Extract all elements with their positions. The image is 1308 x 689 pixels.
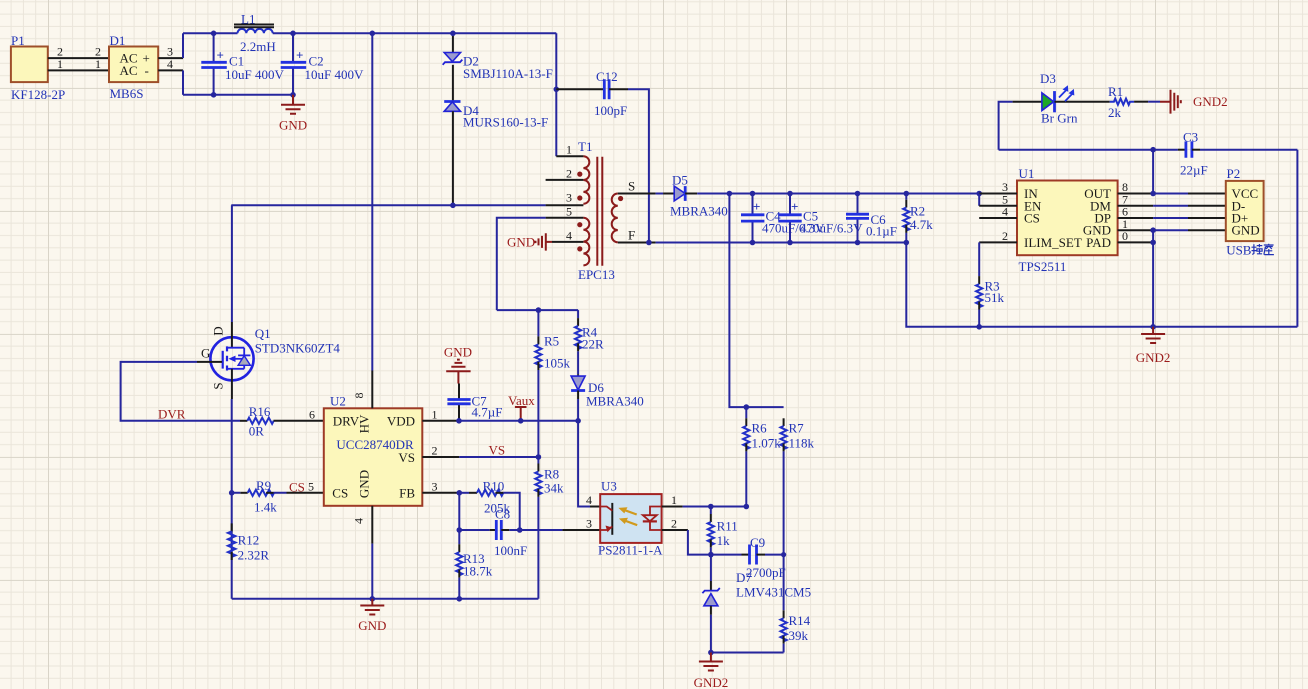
svg-text:U3: U3 [601, 479, 617, 494]
node R2 bottom [904, 240, 910, 246]
node C2 top [290, 31, 296, 37]
U2 pin8 HV [371, 371, 373, 409]
junction dot D4 bottom [450, 203, 456, 209]
svg-text:34k: 34k [544, 481, 564, 496]
IC U2 UCC28740DR [324, 393, 423, 505]
power ground GND above C7 (inverted) [444, 345, 472, 384]
resistor R10 [459, 479, 519, 531]
junction dot VS divider [536, 454, 542, 460]
svg-text:CS: CS [289, 480, 305, 495]
node OUT riser [1150, 191, 1156, 197]
svg-text:1: 1 [566, 143, 572, 157]
resistor R12 [228, 523, 269, 562]
svg-text:R8: R8 [544, 467, 559, 482]
T1 pin1 wire [556, 155, 583, 157]
svg-text:Q1: Q1 [255, 326, 271, 341]
svg-text:C9: C9 [750, 535, 765, 550]
svg-text:GND: GND [507, 235, 535, 250]
svg-text:U1: U1 [1019, 166, 1035, 181]
svg-text:2700pF: 2700pF [746, 565, 786, 580]
svg-text:C3: C3 [1183, 130, 1198, 145]
svg-text:T1: T1 [578, 139, 592, 154]
ground GND2 below rail [1136, 327, 1171, 365]
wire top rail [183, 32, 238, 34]
T1 pin2 wire (nc) [546, 179, 584, 181]
node C6 top [855, 191, 861, 197]
wire Q1 source down [231, 399, 233, 599]
T1 polarity dots [577, 172, 582, 177]
svg-text:0R: 0R [249, 424, 265, 439]
svg-text:+: + [217, 48, 224, 63]
node GND2 rail [1150, 324, 1156, 330]
svg-text:GND2: GND2 [1193, 94, 1228, 109]
diode D4 [444, 65, 548, 206]
node R2 top [904, 191, 910, 197]
svg-text:VS: VS [489, 443, 506, 458]
svg-text:MURS160-13-F: MURS160-13-F [463, 115, 548, 130]
junction dot VDD/D6 [575, 418, 581, 424]
svg-text:G: G [201, 346, 210, 361]
U2 pin1 VDD wire [422, 420, 459, 422]
T1 primary winding upper [583, 156, 589, 204]
svg-text:S: S [211, 382, 226, 389]
node C8/R10 right [517, 527, 523, 533]
node GND pin [1150, 227, 1156, 233]
U1 pin3 IN [979, 193, 1017, 195]
resistor R4 [575, 310, 604, 374]
right loop vertical [1296, 150, 1298, 327]
svg-text:D1: D1 [110, 33, 126, 48]
wire bottom ground rail [232, 598, 539, 600]
USB socket P2 [1226, 166, 1274, 258]
svg-text:R10: R10 [483, 479, 505, 494]
svg-text:4: 4 [1002, 205, 1008, 219]
resistor R16 [240, 404, 324, 439]
node U1 IN/EN [976, 191, 982, 197]
svg-text:+: + [791, 199, 798, 214]
node C4 bottom [750, 240, 756, 246]
U1 right pins [1118, 194, 1154, 243]
aux winding wire [497, 309, 578, 311]
svg-text:CS: CS [1024, 211, 1040, 226]
svg-text:1: 1 [57, 57, 63, 71]
svg-text:4.7µF: 4.7µF [472, 405, 503, 420]
svg-text:2: 2 [566, 166, 572, 180]
svg-text:L1: L1 [241, 12, 255, 27]
wire riser to top rail [182, 33, 184, 58]
svg-text:2: 2 [671, 517, 677, 531]
resistor R6 [743, 407, 781, 506]
wire top rail corner down to T1 pin1 [555, 33, 557, 156]
node C6 bottom [855, 240, 861, 246]
svg-text:22µF: 22µF [1180, 163, 1208, 178]
wire top rail after L1 [273, 32, 557, 34]
U2 pin4 GND [371, 506, 373, 544]
svg-text:D3: D3 [1040, 71, 1056, 86]
svg-text:R5: R5 [544, 334, 559, 349]
svg-text:+: + [296, 48, 303, 63]
resistor R9 [232, 478, 324, 515]
resistor R7 [781, 418, 815, 610]
svg-text:22R: 22R [582, 337, 604, 352]
T1 primary winding lower [583, 218, 589, 266]
svg-text:470uF/6.3V: 470uF/6.3V [800, 221, 863, 236]
wire U1 to P2 data/power lines [1153, 194, 1188, 231]
junction dot D2 top [450, 31, 456, 37]
node PAD pin [1150, 240, 1156, 246]
node C12 return [646, 240, 652, 246]
node C1 bottom [211, 92, 217, 98]
svg-text:MB6S: MB6S [110, 86, 144, 101]
svg-text:GND: GND [1232, 223, 1260, 238]
capacitor C5 [778, 194, 863, 243]
svg-text:PAD: PAD [1086, 235, 1111, 250]
svg-text:3: 3 [566, 190, 572, 204]
svg-text:S: S [628, 179, 635, 194]
svg-text:2: 2 [1002, 229, 1008, 243]
svg-text:GND2: GND2 [1136, 350, 1171, 365]
wire VDD node down to U3 pin4 [578, 421, 590, 507]
power ground GND2 sideways at R1 [1160, 90, 1228, 114]
resistor R1 [1108, 84, 1160, 120]
resistor R5 [535, 310, 570, 457]
node U2 GND [370, 596, 376, 602]
capacitor C4 [741, 194, 825, 243]
node C5 bottom [787, 240, 793, 246]
shunt regulator D7 LMV431 [702, 555, 811, 653]
svg-text:0.1µF: 0.1µF [866, 224, 897, 239]
diode D6 [571, 374, 644, 421]
wire PAD/GND down to GND2 rail [1152, 230, 1154, 327]
svg-text:HV: HV [357, 414, 372, 433]
U3 pin1 wire [662, 506, 683, 508]
svg-text:118k: 118k [789, 436, 815, 451]
junction dot C12 branch [554, 87, 560, 93]
svg-text:GND: GND [444, 345, 472, 360]
svg-text:5: 5 [308, 479, 314, 493]
node R3 bottom [976, 324, 982, 330]
svg-text:LMV431CM5: LMV431CM5 [736, 585, 811, 600]
capacitor C8 [459, 493, 527, 558]
svg-text:MBRA340: MBRA340 [670, 204, 728, 219]
svg-text:R1: R1 [1108, 84, 1123, 99]
resistor R13 [456, 530, 493, 599]
node C4 top [750, 191, 756, 197]
U1 pin5 EN [978, 194, 980, 206]
resistor R8 [535, 457, 564, 599]
capacitor C12 [556, 69, 649, 243]
power ground GND at T1 pin4 (sideways) [507, 233, 552, 250]
node C1 top [211, 31, 217, 37]
opto LED [650, 507, 662, 531]
LED D3 [1013, 71, 1110, 126]
wire D1 pin3 stub [158, 57, 183, 59]
svg-text:1k: 1k [717, 533, 731, 548]
svg-text:2k: 2k [1108, 105, 1122, 120]
svg-text:3: 3 [586, 517, 592, 531]
capacitor C3 [999, 130, 1298, 178]
svg-text:R12: R12 [238, 532, 260, 547]
T1 pin4 wire [552, 241, 583, 243]
svg-text:D7: D7 [736, 570, 752, 585]
transformer T1 [577, 139, 623, 282]
svg-text:EPC13: EPC13 [578, 267, 615, 282]
svg-text:5: 5 [566, 204, 572, 218]
svg-text:4.7k: 4.7k [910, 217, 933, 232]
svg-text:FB: FB [399, 485, 415, 500]
svg-text:R7: R7 [789, 421, 805, 436]
svg-text:D5: D5 [672, 173, 688, 188]
svg-text:1: 1 [95, 57, 101, 71]
svg-text:GND: GND [357, 470, 372, 498]
U3 pin2 wire [662, 529, 688, 531]
wire D1 pin4 stub [158, 69, 183, 71]
wire OUT up to C3 line [1152, 150, 1154, 194]
T1 secondary winding [612, 194, 618, 243]
svg-text:SMBJ110A-13-F: SMBJ110A-13-F [463, 66, 553, 81]
svg-text:R9: R9 [256, 478, 271, 493]
svg-text:USB: USB [1226, 243, 1252, 258]
wire C8 node to U3 pin3 [520, 529, 563, 531]
svg-text:U2: U2 [330, 393, 346, 408]
resistor R2 [903, 194, 933, 243]
svg-text:+: + [753, 199, 760, 214]
svg-text:2.2mH: 2.2mH [240, 39, 276, 54]
node R13 bottom [457, 596, 463, 602]
wire D7/R14 bottom rail [711, 652, 784, 654]
capacitor C7 [447, 384, 502, 421]
svg-text:DVR: DVR [158, 407, 186, 422]
resistor R11 [708, 507, 738, 555]
svg-text:C8: C8 [495, 507, 510, 522]
diode D5 [618, 173, 728, 219]
svg-text:AC: AC [120, 63, 138, 78]
capacitor C2 [281, 33, 364, 95]
svg-text:P2: P2 [1227, 166, 1241, 181]
svg-text:10uF 400V: 10uF 400V [225, 67, 284, 82]
svg-text:-: - [145, 63, 149, 78]
svg-text:1: 1 [671, 493, 677, 507]
svg-text:F: F [628, 228, 635, 243]
svg-text:Vaux: Vaux [508, 393, 535, 408]
junction dot FB node [457, 490, 463, 496]
wire +5V output rail [697, 193, 979, 195]
svg-text:0: 0 [1122, 229, 1128, 243]
U2 pin3 FB wire [422, 492, 459, 494]
TVS diode D2 [443, 33, 553, 81]
svg-text:39k: 39k [789, 628, 809, 643]
svg-text:1.4k: 1.4k [254, 500, 277, 515]
capacitor C1 [201, 33, 284, 95]
wire D3 loop riser [999, 102, 1013, 150]
ground GND below C2 [279, 95, 307, 133]
svg-text:4: 4 [566, 228, 572, 242]
opto arrows [622, 509, 637, 525]
svg-text:P1: P1 [11, 33, 25, 48]
svg-text:8: 8 [352, 393, 366, 399]
optocoupler U3 PS2811-1-A [598, 479, 663, 558]
svg-text:C12: C12 [596, 69, 618, 84]
node C5 top [787, 191, 793, 197]
svg-text:GND: GND [279, 118, 307, 133]
svg-text:2: 2 [432, 444, 438, 458]
T1 pin5 wire [546, 217, 584, 219]
svg-text:105k: 105k [544, 355, 571, 370]
MOSFET Q1 [201, 205, 340, 399]
wire Q1 drain to T1 pin3 [231, 204, 545, 206]
svg-text:VS: VS [398, 450, 415, 465]
svg-text:CS: CS [332, 485, 348, 500]
svg-text:R16: R16 [249, 404, 271, 419]
svg-text:3: 3 [432, 479, 438, 493]
U1 pin4 CS (nc) [979, 217, 1017, 219]
svg-text:1: 1 [432, 407, 438, 421]
svg-text:100nF: 100nF [494, 543, 527, 558]
wire R6/R7 feed from +5V rail [729, 194, 783, 408]
svg-text:4: 4 [586, 493, 592, 507]
svg-text:GND2: GND2 [694, 675, 729, 689]
resistor R14 [781, 610, 811, 652]
capacitor C6 [846, 194, 897, 243]
wire gate loop [121, 362, 240, 421]
svg-text:R6: R6 [752, 421, 768, 436]
svg-text:R11: R11 [717, 518, 738, 533]
power port Vaux [508, 393, 535, 421]
node C2 bottom [290, 92, 296, 98]
svg-text:MBRA340: MBRA340 [586, 394, 644, 409]
svg-text:2.32R: 2.32R [238, 548, 270, 563]
connector P1 [11, 33, 65, 102]
svg-text:GND: GND [358, 618, 386, 633]
svg-text:PS2811-1-A: PS2811-1-A [598, 543, 663, 558]
junction dot D7 node [708, 552, 714, 558]
wire P1 pin1 to D1 pin1 [48, 69, 109, 71]
IC U1 TPS2511 [1017, 166, 1118, 274]
U2 pin2 VS wire [422, 456, 459, 458]
wire secondary return rail [618, 242, 656, 244]
inductor L1 [234, 12, 276, 55]
svg-text:100pF: 100pF [594, 103, 627, 118]
svg-text:ILIM_SET: ILIM_SET [1024, 235, 1082, 250]
wire R2 down to GND2 rail [906, 243, 1297, 327]
svg-text:51k: 51k [985, 290, 1005, 305]
junction dot R9 tap [229, 490, 235, 496]
svg-text:1.07k: 1.07k [752, 436, 782, 451]
svg-text:R14: R14 [789, 613, 811, 628]
capacitor C9 [711, 535, 786, 580]
node R6 feed [727, 191, 733, 197]
svg-text:6: 6 [309, 407, 315, 421]
svg-text:4: 4 [352, 518, 366, 524]
ground GND2 below D7 [694, 653, 729, 689]
svg-text:VDD: VDD [387, 413, 415, 428]
svg-text:10uF 400V: 10uF 400V [305, 67, 364, 82]
svg-text:STD3NK60ZT4: STD3NK60ZT4 [255, 341, 341, 356]
U1 pin2 ILIM_SET [979, 241, 1017, 243]
svg-text:KF128-2P: KF128-2P [11, 87, 65, 102]
wire bottom rail [183, 94, 293, 96]
svg-text:D: D [211, 326, 226, 335]
wire drop to bottom rail [182, 70, 184, 94]
svg-text:18.7k: 18.7k [463, 563, 493, 578]
bridge rectifier D1 [109, 33, 158, 101]
ground GND below U2 [358, 599, 386, 633]
svg-text:Br Grn: Br Grn [1041, 111, 1078, 126]
resistor R3 [976, 242, 1004, 326]
wire P1 pin2 to D1 pin2 [48, 57, 109, 59]
T1 core [597, 157, 602, 266]
opto transistor [611, 503, 613, 535]
svg-text:TPS2511: TPS2511 [1019, 259, 1067, 274]
